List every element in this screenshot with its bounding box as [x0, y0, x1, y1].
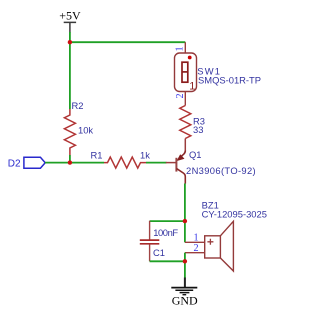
svg-text:2: 2	[194, 243, 199, 254]
ground GND	[171, 278, 198, 308]
label R3	[193, 115, 205, 126]
wire D2 to node B	[45, 162, 70, 164]
node B junction	[68, 160, 72, 164]
switch SW1 pin 1 lead	[184, 42, 186, 53]
svg-text:C1: C1	[153, 247, 165, 258]
value 100nF	[153, 227, 178, 238]
wire R1 to Q1 base	[146, 162, 167, 164]
svg-text:SMQS-01R-TP: SMQS-01R-TP	[198, 75, 261, 86]
buzzer BZ1 body	[205, 221, 234, 271]
wire cap branch bottom	[150, 260, 185, 262]
svg-text:R1: R1	[91, 150, 103, 161]
wire left vertical to R2	[69, 42, 71, 109]
buzzer BZ1 pin 1 lead	[185, 241, 205, 243]
BZ1 pin number 1	[194, 233, 199, 244]
svg-text:1: 1	[194, 233, 199, 244]
svg-text:10k: 10k	[78, 125, 93, 136]
svg-text:33: 33	[193, 124, 203, 135]
value 10k	[78, 125, 93, 136]
label BZ1	[202, 200, 219, 211]
switch SW1 body	[175, 53, 197, 92]
value 33	[193, 124, 203, 135]
wire top horizontal to SW1	[70, 41, 185, 43]
label Q1	[189, 149, 202, 160]
value SMQS-01R-TP	[198, 75, 261, 86]
wire node B to R1	[70, 162, 104, 164]
value 1k	[140, 150, 150, 161]
label R2	[72, 100, 84, 111]
svg-text:100nF: 100nF	[153, 227, 178, 238]
transistor Q1	[166, 139, 186, 184]
svg-text:1k: 1k	[140, 150, 150, 161]
port D2	[8, 157, 45, 169]
label SW1	[197, 66, 221, 77]
svg-text:Q1: Q1	[189, 149, 202, 160]
buzzer BZ1 pin 2 lead	[185, 252, 205, 254]
svg-text:1: 1	[175, 46, 186, 51]
wire Q1 collector down	[184, 184, 186, 243]
wire buzzer pin2 to node D	[184, 253, 186, 262]
wire from +5V to node A	[69, 32, 71, 42]
wire node D to GND	[184, 261, 186, 278]
svg-text:+5V: +5V	[59, 9, 81, 23]
svg-text:1: 1	[189, 80, 195, 92]
svg-text:2N3906(TO-92): 2N3906(TO-92)	[186, 165, 256, 176]
svg-text:D2: D2	[8, 158, 21, 169]
svg-text:2: 2	[175, 93, 186, 98]
SW1 pin number 2	[175, 93, 186, 98]
power flag +5V	[59, 9, 81, 33]
SW1 pin number 1	[175, 46, 186, 51]
wire cap branch top	[150, 220, 185, 222]
svg-text:R2: R2	[72, 100, 84, 111]
resistor R3	[180, 106, 191, 139]
label C1	[153, 247, 165, 258]
svg-text:CY-12095-3025: CY-12095-3025	[202, 209, 267, 220]
wire R2 to node B	[69, 155, 71, 163]
svg-text:GND: GND	[172, 293, 198, 307]
label R1	[91, 150, 103, 161]
capacitor C1	[140, 221, 160, 261]
switch SW1 pin 2 lead	[184, 92, 186, 106]
value 2N3906(TO-92)	[186, 165, 256, 176]
node D junction	[183, 259, 187, 263]
node A junction	[68, 40, 72, 44]
BZ1 pin number 2	[194, 243, 199, 254]
resistor R1	[104, 157, 146, 168]
value CY-12095-3025	[202, 209, 267, 220]
resistor R2	[64, 109, 75, 156]
node C junction	[183, 219, 187, 223]
